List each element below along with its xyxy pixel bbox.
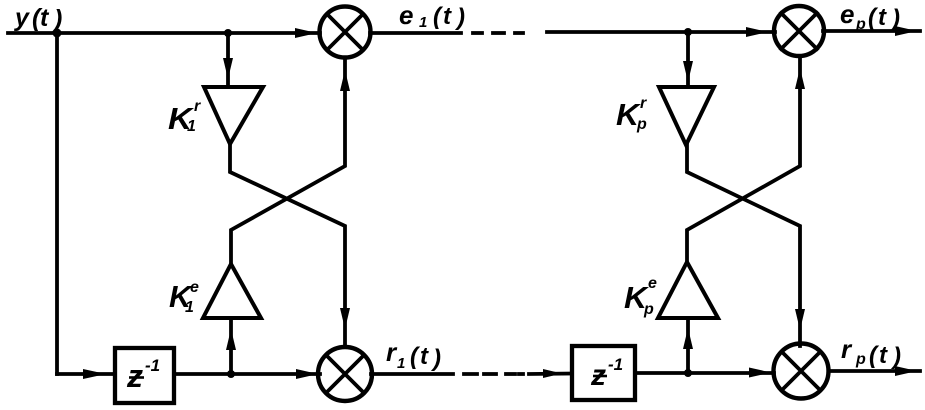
svg-text:e: e (190, 279, 199, 296)
svg-text:z: z (126, 358, 143, 394)
svg-text:p: p (636, 116, 647, 133)
svg-text:-1: -1 (608, 355, 623, 374)
svg-text:y(t): y(t) (13, 4, 62, 33)
svg-text:rp(t): rp(t) (841, 334, 901, 370)
svg-text:1: 1 (185, 299, 194, 316)
svg-text:r: r (194, 98, 201, 115)
svg-text:r1(t): r1(t) (386, 337, 441, 372)
svg-text:1: 1 (187, 118, 196, 135)
svg-text:e: e (648, 275, 657, 292)
svg-text:-1: -1 (145, 356, 160, 375)
svg-text:ep(t): ep(t) (840, 0, 900, 33)
svg-text:e1(t): e1(t) (399, 0, 465, 31)
svg-text:r: r (640, 95, 647, 112)
svg-text:p: p (643, 301, 654, 318)
